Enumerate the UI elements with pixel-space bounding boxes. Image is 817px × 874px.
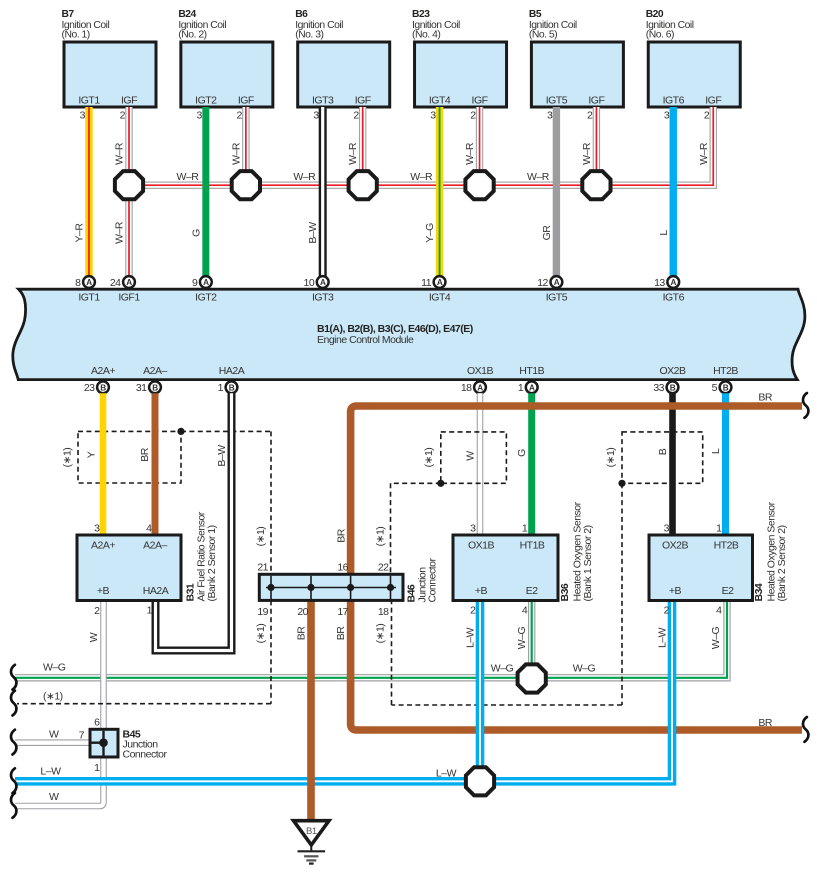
wire Y–R from B7 IGT to ECM pin — [74, 107, 90, 277]
svg-text:BR: BR — [139, 447, 151, 462]
svg-text:IGF1: IGF1 — [118, 292, 140, 304]
svg-text:1: 1 — [94, 762, 100, 774]
break mark (L-W bus) — [11, 768, 16, 793]
wire W-R from B7 IGF down to ECM pin IGF1 — [125, 107, 132, 277]
svg-text:IGT1: IGT1 — [78, 292, 100, 304]
svg-text:B7: B7 — [62, 9, 75, 20]
svg-text:OX2B: OX2B — [662, 540, 689, 552]
svg-text:B1: B1 — [306, 826, 317, 837]
wire W-G from B36 E2 to junction — [528, 601, 535, 678]
svg-text:IGT6: IGT6 — [663, 292, 685, 304]
svg-text:(No. 2): (No. 2) — [178, 30, 206, 41]
svg-text:Connector: Connector — [123, 749, 168, 761]
labels W at left edge — [49, 729, 59, 804]
svg-text:(∗1): (∗1) — [605, 448, 617, 468]
shield (*1) around B36 OX1B wire, dashed — [423, 432, 506, 483]
svg-text:+B: +B — [475, 585, 488, 597]
svg-text:W–R: W–R — [177, 171, 200, 183]
svg-text:1: 1 — [518, 382, 524, 394]
svg-text:W: W — [465, 451, 477, 461]
svg-text:B24: B24 — [178, 9, 196, 20]
svg-text:2: 2 — [120, 110, 126, 122]
label W-R (bus) — [527, 171, 550, 183]
svg-text:W: W — [49, 729, 59, 741]
svg-text:1: 1 — [522, 522, 528, 534]
svg-text:IGF: IGF — [472, 95, 488, 107]
svg-text:B: B — [723, 383, 729, 392]
ECM pin 23(B) A2A+ — [84, 365, 116, 394]
ignition coil B20 (No. 6) — [646, 9, 741, 121]
svg-text:L–W: L–W — [465, 627, 477, 648]
label W-R (below junction, to IGF1) — [114, 221, 126, 244]
wire W-R from B5 IGF to junction — [593, 107, 600, 185]
svg-text:E2: E2 — [526, 585, 539, 597]
svg-text:IGF: IGF — [355, 95, 371, 107]
ECM pin 8(A) IGT1 — [75, 276, 100, 303]
junction node J5 (W-R bus) — [582, 171, 610, 199]
svg-text:10: 10 — [304, 277, 315, 289]
svg-text:23: 23 — [84, 382, 95, 394]
svg-text:A2A+: A2A+ — [91, 540, 115, 552]
ECM pin 9(A) IGT2 — [192, 276, 217, 303]
svg-text:W–R: W–R — [410, 171, 433, 183]
svg-text:G: G — [516, 449, 528, 457]
label W-R (B7) — [114, 142, 126, 165]
wire W from left break to B45 pin 7 — [15, 739, 90, 746]
svg-text:HT1B: HT1B — [520, 540, 545, 552]
break mark (W wire) — [11, 793, 16, 818]
svg-text:B20: B20 — [646, 9, 664, 20]
svg-text:B36: B36 — [559, 583, 571, 601]
svg-text:A: A — [529, 383, 535, 392]
svg-text:18: 18 — [378, 606, 389, 618]
svg-text:IGT5: IGT5 — [546, 292, 568, 304]
junction node (W-G bus) — [518, 664, 546, 692]
svg-text:11: 11 — [421, 277, 432, 289]
junction node (L-W bus) — [466, 767, 494, 795]
svg-text:IGF: IGF — [121, 95, 137, 107]
ECM pin 33(B) OX2B — [653, 365, 686, 394]
svg-text:(∗1): (∗1) — [375, 527, 387, 547]
wire W-R from B23 IGF to junction — [476, 107, 483, 185]
label W-R (bus) — [410, 171, 433, 183]
ignition coil B5 (No. 5) — [529, 9, 624, 121]
svg-text:7: 7 — [79, 730, 85, 742]
svg-text:Y: Y — [86, 451, 98, 458]
svg-text:OX1B: OX1B — [467, 365, 494, 377]
svg-text:B–W: B–W — [216, 445, 228, 467]
svg-text:W: W — [49, 791, 59, 803]
svg-text:2: 2 — [94, 605, 100, 617]
svg-text:3: 3 — [664, 110, 670, 122]
wire BR from B46 pin 20 to ground B1 — [296, 600, 312, 821]
svg-text:IGF: IGF — [588, 95, 604, 107]
svg-text:9: 9 — [192, 277, 198, 289]
svg-text:IGT4: IGT4 — [429, 95, 451, 107]
svg-text:5: 5 — [712, 382, 718, 394]
svg-text:B: B — [229, 383, 235, 392]
svg-text:(∗1): (∗1) — [375, 624, 387, 644]
svg-text:W–G: W–G — [710, 626, 722, 649]
svg-text:IGT1: IGT1 — [78, 95, 100, 107]
svg-text:B: B — [657, 448, 669, 455]
svg-text:G: G — [190, 229, 202, 237]
svg-text:W–R: W–R — [230, 142, 242, 165]
wire GR from B5 IGT to ECM pin — [541, 107, 557, 277]
svg-text:BR: BR — [758, 391, 773, 403]
ignition coil B6 (No. 3) — [295, 9, 390, 121]
svg-text:(No. 1): (No. 1) — [62, 30, 90, 41]
svg-text:22: 22 — [378, 561, 389, 573]
wire W-R from B6 IGF to junction — [359, 107, 366, 185]
svg-text:IGT4: IGT4 — [429, 292, 451, 304]
svg-text:3: 3 — [470, 522, 476, 534]
svg-text:4: 4 — [146, 522, 152, 534]
svg-text:W–R: W–R — [698, 142, 710, 165]
svg-text:(No. 6): (No. 6) — [646, 30, 674, 41]
label W-R (B23) — [464, 142, 476, 165]
svg-text:W–R: W–R — [114, 142, 126, 165]
wire Y–G from B23 IGT to ECM pin — [424, 107, 440, 277]
svg-text:1: 1 — [147, 605, 153, 617]
shield drain wire from B34 shield through B46 pin 18 — [375, 480, 626, 705]
ECM pin 24(A) IGF1 — [110, 276, 141, 303]
junction node J4 (W-R bus) — [465, 171, 493, 199]
wire L from ECM HT2B to B34 — [710, 393, 726, 536]
break mark (shield line) — [11, 691, 16, 716]
wire L-W from B36 +B to junction — [465, 601, 481, 781]
svg-text:(∗1): (∗1) — [255, 527, 267, 547]
break mark (W wire) — [11, 730, 16, 755]
svg-text:A2A–: A2A– — [143, 365, 167, 377]
ECM pin 18(A) OX1B — [461, 365, 494, 394]
svg-text:18: 18 — [461, 382, 472, 394]
svg-text:IGF: IGF — [238, 95, 254, 107]
svg-text:W–R: W–R — [581, 142, 593, 165]
svg-text:(Bank 1 Sensor 2): (Bank 1 Sensor 2) — [582, 525, 594, 601]
svg-text:B34: B34 — [753, 583, 765, 601]
svg-text:1: 1 — [218, 382, 224, 394]
svg-text:21: 21 — [257, 561, 268, 573]
svg-text:A2A+: A2A+ — [91, 365, 115, 377]
wire W from B31 +B to B45 pin 6 — [88, 601, 104, 729]
ignition coil B7 (No. 1) — [62, 9, 157, 121]
heated oxygen sensor B36 (Bank 1 Sensor 2) — [453, 501, 594, 616]
svg-text:3: 3 — [197, 110, 203, 122]
svg-text:(No. 5): (No. 5) — [529, 30, 557, 41]
svg-text:A: A — [86, 278, 92, 287]
svg-text:B–W: B–W — [307, 222, 319, 244]
label W-R (B20) — [698, 142, 710, 165]
junction connector B45 — [79, 717, 168, 774]
svg-text:A2A–: A2A– — [143, 540, 167, 552]
svg-text:Y–G: Y–G — [424, 223, 436, 243]
svg-text:(∗1): (∗1) — [43, 691, 63, 703]
svg-text:HT1B: HT1B — [519, 365, 544, 377]
svg-text:Engine Control Module: Engine Control Module — [317, 334, 414, 346]
svg-text:BR: BR — [336, 528, 348, 543]
svg-text:16: 16 — [337, 561, 348, 573]
label W-R (B24) — [230, 142, 242, 165]
svg-text:2: 2 — [587, 110, 593, 122]
wire Y from ECM A2A+ to B31 — [86, 393, 104, 536]
ECM pin 13(A) IGT6 — [654, 276, 685, 303]
svg-text:33: 33 — [653, 382, 664, 394]
shield (*1) around B34 OX2B wire, dashed — [605, 432, 703, 483]
label W-R (B6) — [347, 142, 359, 165]
ignition coil B24 (No. 2) — [178, 9, 273, 121]
svg-text:B: B — [152, 383, 158, 392]
svg-text:3: 3 — [313, 110, 319, 122]
svg-text:IGT6: IGT6 — [663, 95, 685, 107]
heated oxygen sensor B34 (Bank 2 Sensor 2) — [649, 501, 788, 616]
svg-text:A: A — [437, 278, 443, 287]
svg-text:24: 24 — [110, 277, 121, 289]
svg-text:BR: BR — [335, 626, 347, 641]
svg-text:Connector: Connector — [427, 558, 439, 603]
svg-text:2: 2 — [470, 110, 476, 122]
svg-text:31: 31 — [136, 382, 147, 394]
shield drain wire from B36 shield to B46 pin 22 — [375, 480, 445, 575]
svg-text:W–R: W–R — [293, 171, 316, 183]
svg-text:W–G: W–G — [43, 662, 66, 674]
ECM pin 5(B) HT2B — [712, 365, 739, 394]
junction node J2 (W-R bus) — [232, 171, 260, 199]
wire W from ECM OX1B to B36 — [477, 393, 484, 536]
svg-text:W–R: W–R — [347, 142, 359, 165]
svg-text:3: 3 — [430, 110, 436, 122]
svg-text:(∗1): (∗1) — [62, 448, 74, 468]
svg-text:(Bank 2 Sensor 1): (Bank 2 Sensor 1) — [206, 525, 218, 601]
svg-text:W–R: W–R — [464, 142, 476, 165]
svg-text:A: A — [477, 383, 483, 392]
label W-G (B34 E2 wire) — [710, 626, 722, 649]
svg-text:W–G: W–G — [516, 626, 528, 649]
svg-text:IGT2: IGT2 — [195, 95, 217, 107]
svg-text:20: 20 — [297, 606, 308, 618]
svg-text:IGT3: IGT3 — [312, 292, 334, 304]
labels W-G on ground bus — [43, 662, 596, 675]
junction node J3 (W-R bus) — [349, 171, 377, 199]
wire W-R from B24 IGF to junction — [242, 107, 249, 185]
svg-text:BR: BR — [296, 626, 308, 641]
svg-text:IGT3: IGT3 — [312, 95, 334, 107]
svg-text:IGT2: IGT2 — [195, 292, 217, 304]
wire BR from B46 pin 17 to right break — [335, 600, 802, 730]
svg-text:W–R: W–R — [114, 221, 126, 244]
svg-text:L: L — [710, 448, 722, 454]
svg-text:HA2A: HA2A — [219, 365, 245, 377]
ECM pin 31(B) A2A- — [136, 365, 168, 394]
svg-text:17: 17 — [337, 606, 348, 618]
svg-text:13: 13 — [654, 277, 665, 289]
svg-text:A: A — [554, 278, 560, 287]
svg-text:A: A — [320, 278, 326, 287]
svg-text:B6: B6 — [295, 9, 308, 20]
svg-text:OX1B: OX1B — [468, 540, 495, 552]
svg-text:B5: B5 — [529, 9, 542, 20]
svg-text:3: 3 — [80, 110, 86, 122]
label W (OX1B wire) — [465, 451, 477, 461]
label W-R (bus) — [177, 171, 200, 183]
svg-text:A: A — [671, 278, 677, 287]
svg-text:(∗1): (∗1) — [255, 624, 267, 644]
label W-R (bus) — [293, 171, 316, 183]
svg-text:19: 19 — [257, 606, 268, 618]
label W-R (B5) — [581, 142, 593, 165]
svg-text:+B: +B — [97, 585, 110, 597]
ECM pin 11(A) IGT4 — [421, 276, 451, 303]
svg-text:BR: BR — [758, 717, 773, 729]
junction node J1 (W-R bus) — [115, 171, 143, 199]
air fuel ratio sensor B31 (Bank 2 Sensor 1) — [77, 511, 218, 617]
svg-text:L: L — [658, 230, 670, 236]
svg-text:W–G: W–G — [573, 663, 596, 675]
svg-text:+B: +B — [669, 585, 682, 597]
ignition coil B23 (No. 4) — [412, 9, 507, 121]
wire W-G bus from left break to B34 E2 — [15, 601, 727, 678]
svg-text:3: 3 — [94, 522, 100, 534]
svg-text:Y–R: Y–R — [74, 223, 86, 243]
ground B1 — [294, 821, 330, 864]
label W-G (B36 E2 wire) — [516, 626, 528, 649]
shield (*1) around B31 wires, dashed — [62, 431, 182, 483]
svg-text:HT2B: HT2B — [714, 540, 739, 552]
svg-text:IGF: IGF — [705, 95, 721, 107]
svg-text:4: 4 — [716, 605, 722, 617]
svg-text:HA2A: HA2A — [143, 585, 169, 597]
svg-text:GR: GR — [541, 225, 553, 241]
svg-text:OX2B: OX2B — [659, 365, 686, 377]
shield drain wire from B31 shield to B46 pin 21 and left break — [17, 428, 271, 704]
svg-text:W–G: W–G — [491, 663, 514, 675]
wire G from B24 IGT to ECM pin — [190, 107, 206, 277]
wire B–W from B6 IGT to ECM pin — [307, 107, 323, 277]
svg-text:L–W: L–W — [657, 627, 669, 648]
break mark (W-G bus) — [11, 665, 16, 690]
break mark (BR bus bottom) — [803, 717, 808, 742]
svg-text:L–W: L–W — [40, 766, 61, 778]
wire BR from ECM A2A- to B31 — [139, 393, 155, 536]
wire B from ECM OX2B to B34 — [657, 393, 673, 536]
svg-text:L–W: L–W — [436, 768, 457, 780]
svg-text:B: B — [100, 383, 106, 392]
svg-text:(No. 3): (No. 3) — [295, 30, 323, 41]
wire L-W from B34 +B to L-W bus — [640, 601, 672, 781]
ECM B1(A), B2(B), B3(C), E46(D), E47(E) Engine Control Module — [13, 289, 805, 379]
junction connector B46 — [257, 558, 438, 618]
svg-text:4: 4 — [522, 605, 528, 617]
svg-text:3: 3 — [664, 522, 670, 534]
wire B-W from ECM HA2A to B31 HA2A — [156, 393, 232, 650]
ECM pin 10(A) IGT3 — [304, 276, 335, 303]
svg-text:B23: B23 — [412, 9, 430, 20]
wire G from ECM HT1B to B36 — [516, 393, 532, 536]
svg-text:2: 2 — [664, 605, 670, 617]
wire W from B45 pin 1 to left break — [15, 757, 104, 806]
break mark (BR bus top) — [803, 393, 808, 418]
wire BR power bus from B46 pin 16 to right break — [336, 391, 803, 574]
svg-text:2: 2 — [704, 110, 710, 122]
svg-text:HT2B: HT2B — [713, 365, 738, 377]
svg-text:(No. 4): (No. 4) — [412, 30, 440, 41]
svg-text:2: 2 — [353, 110, 359, 122]
svg-text:12: 12 — [537, 277, 548, 289]
ECM pin 1(B) HA2A — [218, 365, 245, 394]
svg-text:8: 8 — [75, 277, 81, 289]
svg-text:2: 2 — [470, 605, 476, 617]
svg-text:(∗1): (∗1) — [423, 448, 435, 468]
svg-text:2: 2 — [237, 110, 243, 122]
svg-text:1: 1 — [716, 522, 722, 534]
svg-text:A: A — [203, 278, 209, 287]
svg-text:A: A — [126, 278, 132, 287]
wire L from B20 IGT to ECM pin — [658, 107, 674, 277]
wire L-W bus from left break toward B34 +B — [15, 766, 672, 782]
svg-text:E2: E2 — [722, 585, 735, 597]
svg-text:B: B — [670, 383, 676, 392]
ECM pin 12(A) IGT5 — [537, 276, 568, 303]
svg-text:W: W — [88, 632, 100, 642]
svg-text:W–R: W–R — [527, 171, 550, 183]
svg-text:6: 6 — [94, 717, 100, 729]
svg-text:3: 3 — [547, 110, 553, 122]
svg-text:IGT5: IGT5 — [546, 95, 568, 107]
wire W-R bus from B20 IGF across all coils — [129, 107, 713, 185]
ECM pin 1(A) HT1B — [518, 365, 545, 394]
svg-text:(Bank 2 Sensor 2): (Bank 2 Sensor 2) — [776, 525, 788, 601]
